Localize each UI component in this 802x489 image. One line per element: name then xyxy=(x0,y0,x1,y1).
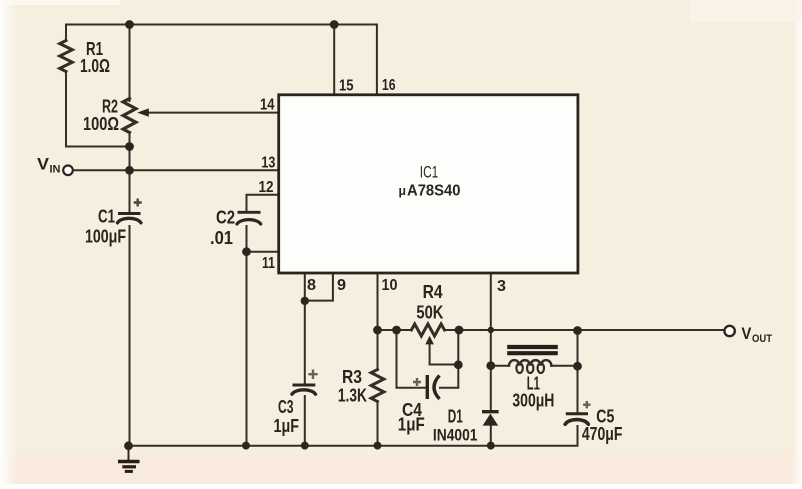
svg-text:D1: D1 xyxy=(448,406,463,426)
svg-text:8: 8 xyxy=(307,277,316,294)
svg-text:C1: C1 xyxy=(98,207,115,227)
svg-text:9: 9 xyxy=(337,277,346,294)
svg-text:100Ω: 100Ω xyxy=(83,114,119,134)
svg-text:1.0Ω: 1.0Ω xyxy=(80,56,110,76)
svg-text:12: 12 xyxy=(259,179,274,196)
svg-text:C2: C2 xyxy=(216,208,235,228)
svg-text:IN: IN xyxy=(50,164,61,176)
svg-text:A78S40: A78S40 xyxy=(407,183,461,200)
svg-text:R4: R4 xyxy=(423,282,443,302)
svg-text:IC1: IC1 xyxy=(420,163,439,182)
svg-text:3: 3 xyxy=(497,278,506,295)
svg-text:100μF: 100μF xyxy=(85,227,126,247)
svg-text:1.3K: 1.3K xyxy=(338,385,367,405)
svg-text:16: 16 xyxy=(382,77,396,94)
svg-text:R3: R3 xyxy=(342,367,362,387)
svg-text:V: V xyxy=(37,155,50,174)
svg-text:11: 11 xyxy=(262,255,275,272)
svg-text:C3: C3 xyxy=(278,397,294,417)
svg-text:50K: 50K xyxy=(416,303,443,323)
svg-text:470μF: 470μF xyxy=(582,424,623,444)
svg-text:14: 14 xyxy=(260,97,275,114)
svg-text:1μF: 1μF xyxy=(398,414,425,434)
svg-text:1μF: 1μF xyxy=(274,416,300,436)
svg-text:V: V xyxy=(741,324,752,343)
svg-text:μ: μ xyxy=(399,183,407,198)
svg-text:10: 10 xyxy=(382,277,398,294)
svg-text:OUT: OUT xyxy=(752,333,772,345)
svg-text:15: 15 xyxy=(339,77,354,94)
svg-text:.01: .01 xyxy=(210,228,233,248)
svg-text:300μH: 300μH xyxy=(512,391,554,411)
svg-text:IN4001: IN4001 xyxy=(433,426,478,445)
svg-text:13: 13 xyxy=(261,154,275,171)
